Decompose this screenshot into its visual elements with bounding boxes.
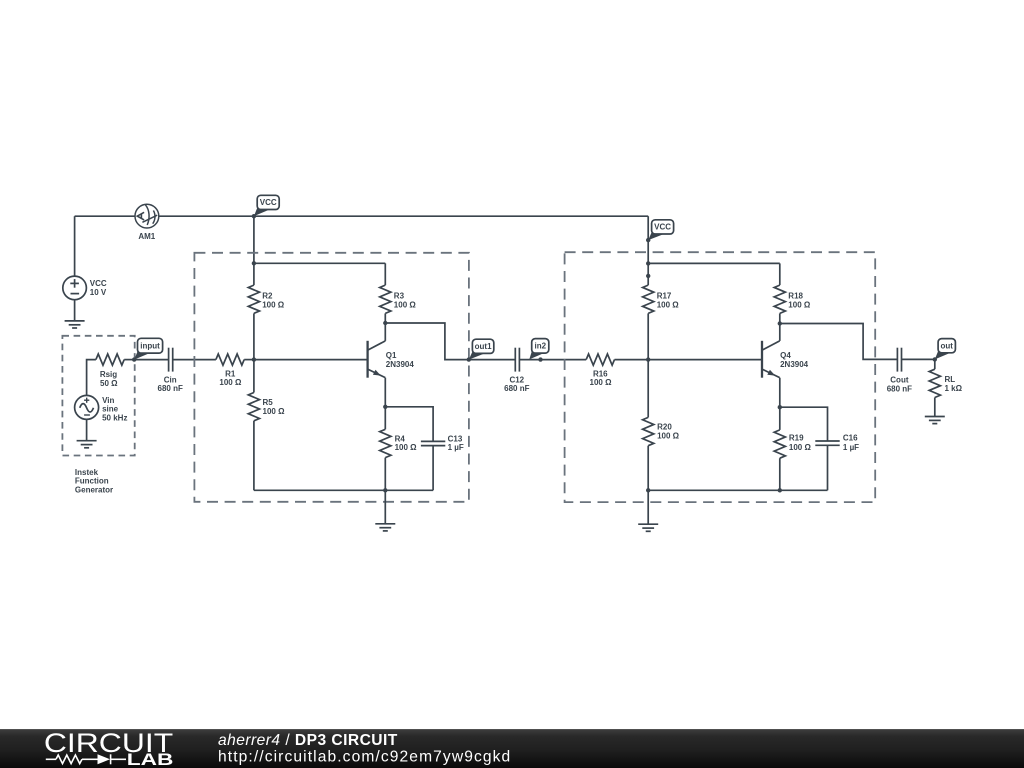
ground below Vin bbox=[77, 441, 97, 448]
wire C12 to R16 bbox=[519, 359, 586, 361]
wire base node to Q1 bbox=[254, 359, 368, 361]
svg-text:50 kHz: 50 kHz bbox=[102, 413, 127, 422]
wire Rsig to input node bbox=[124, 359, 134, 361]
svg-text:680 nF: 680 nF bbox=[504, 384, 529, 393]
svg-text:C13: C13 bbox=[448, 434, 463, 443]
ground stage1 bbox=[375, 524, 395, 531]
svg-text:Instek: Instek bbox=[75, 468, 99, 477]
wire collector to out1 bbox=[385, 323, 469, 360]
svg-text:aherrer4 / DP3 CIRCUIT: aherrer4 / DP3 CIRCUIT bbox=[218, 732, 398, 749]
wire VCC source riser bbox=[74, 216, 76, 276]
node out1 bbox=[467, 357, 471, 361]
ground below VCC source bbox=[65, 321, 85, 328]
wire Vin to ground bbox=[86, 419, 88, 440]
svg-text:http://circuitlab.com/c92em7yw: http://circuitlab.com/c92em7yw9cgkd bbox=[218, 749, 511, 766]
node stage1 VCC tap bbox=[252, 214, 256, 218]
logo resistor-diode glyph bbox=[46, 754, 126, 764]
svg-text:100 Ω: 100 Ω bbox=[590, 378, 613, 387]
node stage2 ground junction bbox=[646, 488, 650, 492]
capacitor C16 1uF bbox=[815, 441, 839, 445]
stage 2 dashed box bbox=[565, 252, 876, 502]
node in2 bbox=[538, 357, 542, 361]
wire C16 to bottom rail bbox=[827, 445, 829, 490]
svg-text:input: input bbox=[140, 342, 160, 351]
svg-text:50 Ω: 50 Ω bbox=[100, 379, 118, 388]
svg-text:Q1: Q1 bbox=[386, 351, 397, 360]
svg-text:Generator: Generator bbox=[75, 485, 113, 494]
wire R5 to bottom rail bbox=[253, 421, 255, 491]
svg-text:R19: R19 bbox=[789, 434, 804, 443]
svg-text:in2: in2 bbox=[534, 342, 546, 351]
svg-text:R2: R2 bbox=[262, 292, 273, 301]
svg-text:R3: R3 bbox=[394, 292, 405, 301]
ammeter AM1 bbox=[135, 204, 159, 228]
svg-text:Q4: Q4 bbox=[780, 351, 791, 360]
wire R3 to collector bbox=[384, 313, 386, 341]
transistor Q1 2N3904 bbox=[368, 341, 386, 378]
voltage source VCC 10V bbox=[63, 276, 87, 300]
svg-text:VCC: VCC bbox=[260, 198, 277, 207]
node stage1 base bbox=[252, 357, 256, 361]
wire rail to R17 bbox=[647, 263, 649, 285]
wire Vin riser to Rsig bbox=[87, 360, 96, 396]
function generator dashed box bbox=[62, 336, 134, 456]
wire emitter node to R19 bbox=[779, 407, 781, 430]
wire Cout to out node bbox=[902, 358, 935, 360]
wire Cin to R1 bbox=[173, 359, 216, 361]
svg-text:C16: C16 bbox=[843, 434, 858, 443]
resistor Rsig 50 bbox=[96, 354, 124, 365]
node stage1 ground junction bbox=[383, 488, 387, 492]
node R19 bottom junction bbox=[778, 488, 782, 492]
svg-text:680 nF: 680 nF bbox=[887, 384, 912, 393]
svg-text:2N3904: 2N3904 bbox=[386, 360, 415, 369]
svg-text:1 kΩ: 1 kΩ bbox=[945, 384, 963, 393]
resistor R1 100 bbox=[216, 354, 244, 365]
svg-text:100 Ω: 100 Ω bbox=[219, 378, 242, 387]
resistor R18 100 bbox=[774, 285, 785, 313]
svg-text:R18: R18 bbox=[788, 292, 803, 301]
node input junction bbox=[132, 357, 136, 361]
wire collector to Cout bbox=[780, 324, 898, 360]
resistor R2 100 bbox=[248, 285, 259, 313]
svg-text:R5: R5 bbox=[263, 398, 274, 407]
svg-text:100 Ω: 100 Ω bbox=[395, 443, 418, 452]
wire top rail from VCC source to stage 2 bbox=[75, 215, 649, 217]
node stage2 emitter bbox=[778, 405, 782, 409]
net flag out bbox=[935, 350, 951, 359]
svg-text:AM1: AM1 bbox=[138, 232, 155, 241]
wire base node to R20 bbox=[647, 360, 649, 418]
wire rail to R18 bbox=[779, 263, 781, 285]
svg-text:sine: sine bbox=[102, 405, 119, 414]
svg-text:out: out bbox=[941, 342, 954, 351]
svg-text:RL: RL bbox=[945, 375, 956, 384]
wire out node to RL bbox=[934, 359, 936, 369]
wire RL to ground bbox=[934, 398, 936, 417]
wire C13 to bottom rail bbox=[432, 446, 434, 491]
svg-text:100 Ω: 100 Ω bbox=[394, 301, 417, 310]
svg-text:Function: Function bbox=[75, 477, 109, 486]
node stage1 emitter bbox=[383, 405, 387, 409]
node stage2 collector bbox=[778, 321, 782, 325]
ground stage2 bbox=[638, 524, 658, 531]
wire R4 to bottom rail bbox=[384, 458, 386, 491]
net flag VCC stage2 bbox=[648, 232, 664, 241]
stage 1 dashed box bbox=[194, 253, 469, 502]
resistor R4 100 bbox=[380, 429, 391, 457]
svg-text:VCC: VCC bbox=[90, 279, 107, 288]
wire base node to Q4 bbox=[648, 359, 762, 361]
footer bar bbox=[0, 729, 1024, 768]
node stage2 base bbox=[646, 357, 650, 361]
resistor R5 100 bbox=[248, 393, 259, 421]
svg-text:100 Ω: 100 Ω bbox=[788, 301, 811, 310]
node stage2 rail junction bbox=[646, 261, 650, 265]
capacitor C13 1uF bbox=[421, 441, 445, 445]
svg-text:out1: out1 bbox=[475, 342, 492, 351]
svg-text:2N3904: 2N3904 bbox=[780, 360, 809, 369]
svg-text:100 Ω: 100 Ω bbox=[262, 301, 285, 310]
wire input node to Cin bbox=[134, 359, 168, 361]
wire stage2 VCC drop bbox=[647, 216, 649, 263]
resistor R3 100 bbox=[380, 285, 391, 313]
wire stage1 rail bbox=[254, 262, 385, 264]
net flag in2 bbox=[529, 351, 544, 360]
svg-text:100 Ω: 100 Ω bbox=[789, 443, 812, 452]
svg-text:R17: R17 bbox=[657, 292, 672, 301]
wire emitter to node bbox=[779, 378, 781, 408]
net flag VCC stage1 bbox=[254, 207, 270, 216]
wire R19 to bottom rail bbox=[779, 458, 781, 490]
wire stage1 ground stem bbox=[384, 490, 386, 524]
node R17 top bbox=[646, 274, 650, 278]
wire R17 to base node bbox=[647, 313, 649, 359]
source Vin sine bbox=[75, 395, 99, 419]
svg-text:Vin: Vin bbox=[102, 396, 114, 405]
node out bbox=[933, 357, 937, 361]
wire emitter node to R4 bbox=[384, 407, 386, 430]
svg-text:Cout: Cout bbox=[890, 375, 909, 384]
svg-text:R4: R4 bbox=[395, 434, 406, 443]
svg-text:1 µF: 1 µF bbox=[448, 443, 464, 452]
wire stage2 bottom rail bbox=[648, 489, 827, 491]
wire emitter to node bbox=[384, 378, 386, 407]
resistor R20 100 bbox=[643, 417, 654, 445]
wire base node to R5 bbox=[253, 360, 255, 393]
net flag out1 bbox=[469, 351, 486, 360]
svg-text:Cin: Cin bbox=[164, 375, 177, 384]
wire R2 to base node bbox=[253, 313, 255, 359]
svg-text:VCC: VCC bbox=[654, 223, 671, 232]
node stage1 collector bbox=[383, 321, 387, 325]
node stage1 rail junction bbox=[252, 261, 256, 265]
wire rail to R2 bbox=[253, 263, 255, 285]
svg-text:LAB: LAB bbox=[127, 750, 174, 768]
wire R16 to stage2 base node bbox=[615, 359, 649, 361]
ground below RL bbox=[925, 417, 945, 424]
svg-text:100 Ω: 100 Ω bbox=[263, 407, 286, 416]
svg-text:1 µF: 1 µF bbox=[843, 443, 859, 452]
svg-text:10 V: 10 V bbox=[90, 288, 107, 297]
wire out1 to C12 bbox=[469, 359, 516, 361]
resistor R17 100 bbox=[643, 285, 654, 313]
resistor R19 100 bbox=[774, 430, 785, 458]
node stage2 VCC tap bbox=[646, 238, 650, 242]
resistor RL 1k bbox=[929, 369, 940, 397]
capacitor Cin 680nF bbox=[169, 348, 173, 372]
wire stage1 VCC drop bbox=[253, 216, 255, 263]
transistor Q4 2N3904 bbox=[762, 341, 780, 378]
wire stage1 bottom rail bbox=[254, 489, 433, 491]
wire stage2 ground stem bbox=[647, 490, 649, 524]
svg-text:680 nF: 680 nF bbox=[158, 384, 183, 393]
wire VCC source to ground bbox=[74, 300, 76, 321]
svg-text:C12: C12 bbox=[509, 375, 524, 384]
svg-text:R20: R20 bbox=[657, 422, 672, 431]
wire emitter node to C16 bbox=[780, 407, 828, 441]
svg-text:100 Ω: 100 Ω bbox=[657, 431, 680, 440]
capacitor Cout 680nF bbox=[897, 348, 901, 372]
capacitor C12 680nF bbox=[515, 348, 519, 372]
wire R1 to base node bbox=[244, 359, 254, 361]
wire stage2 rail bbox=[648, 262, 780, 264]
net flag input bbox=[134, 351, 150, 360]
resistor R16 100 bbox=[586, 354, 614, 365]
wire R20 to bottom rail bbox=[647, 446, 649, 491]
wire rail to R3 bbox=[384, 263, 386, 285]
wire emitter node to C13 bbox=[385, 407, 433, 442]
wire R18 to collector bbox=[779, 313, 781, 341]
svg-text:100 Ω: 100 Ω bbox=[657, 301, 680, 310]
